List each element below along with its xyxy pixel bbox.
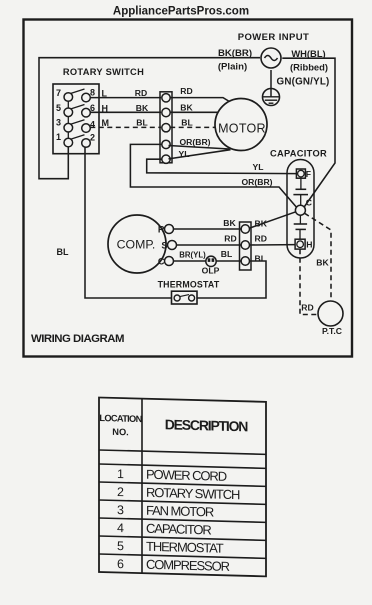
row 3 number [117, 503, 124, 517]
label CAPACITOR [270, 149, 327, 159]
wire GN plug to ground [270, 70, 272, 97]
rotary switch pin 8 [82, 93, 91, 102]
svg-text:(Ribbed): (Ribbed) [290, 62, 328, 73]
TB2 terminal BL [241, 257, 249, 265]
svg-text:5: 5 [56, 103, 61, 113]
label WH(BL) [291, 48, 325, 59]
thermostat TH1 [172, 291, 198, 304]
label POWER INPUT [238, 32, 309, 43]
pin number 6 [90, 103, 95, 113]
svg-text:6: 6 [117, 557, 124, 571]
svg-text:WIRING DIAGRAM: WIRING DIAGRAM [31, 333, 124, 345]
wire RD TB2 to capacitor H [250, 244, 295, 246]
svg-text:OR(BR): OR(BR) [179, 137, 210, 147]
table header bottom line [99, 450, 266, 454]
TB2 terminal RD [241, 241, 249, 249]
switch blade row 3 [71, 120, 85, 125]
wire RD switch L to strip [90, 97, 161, 99]
label OR(BR) (motor side) [179, 137, 210, 147]
label BK (motor side) [180, 103, 193, 113]
svg-text:BL: BL [255, 254, 266, 264]
svg-text:BK: BK [180, 103, 193, 113]
label BK (comp side) [223, 218, 236, 228]
row 1 POWER CORD [146, 467, 227, 484]
label ROTARY SWITCH [63, 67, 144, 77]
wire BR(YL) comp C to OLP [174, 260, 207, 262]
table row lines [99, 464, 266, 558]
svg-text:C: C [306, 198, 312, 208]
wire RD comp S to TB2 [177, 244, 242, 246]
svg-text:AppliancePartsPros.com: AppliancePartsPros.com [113, 6, 249, 18]
rotary switch pin 5 [64, 108, 73, 117]
switch blade row 1 [71, 89, 85, 94]
label BL (motor side) [181, 117, 192, 127]
label RD (PTC side) [301, 303, 313, 313]
svg-text:THERMOSTAT: THERMOSTAT [146, 539, 224, 556]
svg-text:BL: BL [181, 117, 192, 127]
fan motor M1 [215, 99, 267, 151]
compressor M2 [108, 215, 166, 273]
wire BL strip to motor (dashed) [170, 126, 215, 128]
pin number 5 [56, 103, 61, 113]
label OLP [202, 266, 220, 276]
label YL (motor side) [179, 149, 190, 159]
svg-text:R: R [158, 225, 165, 235]
svg-text:CAPACITOR: CAPACITOR [270, 149, 327, 159]
capacitor terminal C [295, 205, 305, 215]
TB1 terminal YL [162, 155, 170, 163]
label BR(YL) [179, 251, 206, 260]
rotary switch pin 7 [64, 93, 73, 102]
wire OR(BR) strip to motor [169, 146, 230, 150]
pin number 1 [56, 132, 61, 142]
wire BK(BR) plug to rotary switch pin1 [39, 58, 260, 179]
rotary switch pin 3 [64, 123, 73, 132]
label YL (capacitor side) [253, 162, 264, 172]
row 5 number [117, 539, 124, 553]
svg-text:1: 1 [56, 132, 61, 142]
svg-text:3: 3 [56, 118, 61, 128]
label (Ribbed) [290, 62, 328, 73]
svg-text:2: 2 [117, 485, 124, 499]
svg-text:WH(BL): WH(BL) [291, 48, 325, 59]
label RD (TB2 right) [255, 234, 267, 244]
svg-text:S: S [161, 241, 167, 251]
terminal strip TB1 body [160, 92, 172, 163]
svg-text:M: M [102, 118, 110, 128]
svg-text:RD: RD [180, 86, 192, 96]
capacitor plates C-H [294, 215, 307, 239]
OLP overload protector [206, 256, 216, 266]
svg-text:GN(GN/YL): GN(GN/YL) [277, 77, 330, 88]
label BL (OLP side) [221, 249, 232, 259]
svg-text:YL: YL [253, 162, 264, 172]
svg-text:RD: RD [301, 303, 313, 313]
header DESCRIPTION [165, 416, 249, 434]
pin number 2 [90, 133, 95, 143]
watermark AppliancePartsPros.com [113, 6, 249, 18]
wire BL rotary pin2 to thermostat [85, 147, 172, 298]
svg-text:BL: BL [221, 249, 232, 259]
wire YL loop strip to capacitor F [147, 159, 297, 173]
svg-text:RD: RD [135, 88, 147, 98]
label BK(BR) [218, 48, 252, 59]
label P.T.C [322, 326, 342, 336]
row 2 number [117, 485, 124, 499]
label S [161, 241, 167, 251]
switch blade row 4 [71, 135, 85, 140]
label BL (TB2 right) [255, 254, 266, 264]
pin number 4 [90, 120, 95, 130]
svg-text:BL: BL [136, 117, 147, 127]
svg-text:OR(BR): OR(BR) [241, 177, 272, 187]
label BL (left side) [57, 247, 69, 257]
row 1 number [117, 467, 124, 481]
wire BK switch H to strip [90, 111, 161, 113]
label THERMOSTAT [158, 279, 220, 289]
row 3 FAN MOTOR [146, 503, 214, 520]
label BK (switch side) [136, 103, 149, 113]
label GN(GN/YL) [277, 77, 330, 88]
row 6 number [117, 557, 124, 571]
label BK (TB2 right) [255, 219, 268, 229]
ground symbol [262, 89, 280, 106]
svg-text:4: 4 [117, 521, 124, 535]
label OR(BR) (capacitor side) [241, 177, 272, 187]
label F [306, 169, 311, 179]
row 6 COMPRESSOR [146, 557, 230, 574]
svg-text:C: C [158, 257, 165, 267]
TB1 terminal OR(BR) [162, 140, 170, 148]
svg-text:7: 7 [56, 88, 61, 98]
svg-text:NO.: NO. [112, 427, 129, 437]
label RD (motor side) [180, 86, 192, 96]
svg-text:1: 1 [117, 467, 124, 481]
label M [102, 118, 110, 128]
table column divider [141, 399, 143, 573]
label C [306, 198, 312, 208]
pin number 8 [90, 88, 95, 98]
wire BL switch M to strip (dashed) [90, 126, 161, 128]
label R [158, 225, 165, 235]
svg-text:BK: BK [316, 258, 329, 268]
svg-text:OLP: OLP [202, 266, 220, 276]
svg-text:BR(YL): BR(YL) [179, 251, 206, 260]
svg-text:RD: RD [224, 234, 236, 244]
svg-text:3: 3 [117, 503, 124, 517]
svg-text:COMP.: COMP. [117, 238, 156, 252]
TB2 terminal BK [241, 225, 249, 233]
svg-text:CAPACITOR: CAPACITOR [146, 521, 211, 538]
rotary switch pin 2 [82, 139, 91, 148]
table outer border [99, 398, 266, 577]
pin number 7 [56, 88, 61, 98]
comp terminal strip TB2 body [240, 222, 252, 270]
svg-text:POWER INPUT: POWER INPUT [238, 32, 309, 43]
diagram frame [24, 20, 353, 357]
svg-text:DESCRIPTION: DESCRIPTION [165, 416, 249, 434]
header LOCATION NO. [99, 413, 142, 438]
svg-text:BK: BK [223, 218, 236, 228]
svg-text:FAN MOTOR: FAN MOTOR [146, 503, 214, 520]
parts table [99, 398, 266, 577]
capacitor terminal F [296, 169, 305, 178]
label (Plain) [218, 62, 247, 73]
wire BK dashed capacitor C to PTC [305, 213, 331, 301]
label H [102, 104, 109, 114]
TB1 terminal BK [162, 108, 170, 116]
left pin chain wires [67, 101, 69, 138]
rotary switch pin 6 [82, 108, 91, 117]
PTC thermistor [318, 301, 343, 326]
comp terminal S [168, 241, 177, 250]
svg-text:F: F [306, 169, 311, 179]
label C (comp) [158, 257, 165, 267]
svg-text:ROTARY SWITCH: ROTARY SWITCH [63, 67, 144, 77]
capacitor plates F-C [293, 178, 308, 205]
rotary switch pin 1 [64, 138, 73, 147]
comp terminal R [165, 225, 174, 234]
wire BK comp R to TB2 [174, 228, 242, 230]
label BK (PTC side) [316, 258, 329, 268]
svg-text:BK: BK [136, 103, 149, 113]
row 5 THERMOSTAT [146, 539, 224, 556]
label RD (comp side) [224, 234, 236, 244]
rotary switch pin 4 [82, 124, 91, 133]
pin number 3 [56, 118, 61, 128]
svg-text:BK(BR): BK(BR) [218, 48, 252, 59]
capacitor C1 body [287, 160, 314, 259]
wire YL strip to motor [169, 150, 231, 159]
switch blade row 2 [71, 105, 85, 110]
TB1 terminal BL [162, 124, 170, 132]
label BL (switch side) [136, 117, 147, 127]
wire WH(BL) plug to capacitor C [282, 58, 335, 207]
label RD (switch side) [135, 88, 147, 98]
svg-text:COMPRESSOR: COMPRESSOR [146, 557, 230, 574]
svg-text:ROTARY SWITCH: ROTARY SWITCH [146, 485, 240, 502]
row 4 CAPACITOR [146, 521, 211, 538]
wire BL TB2 to thermostat [197, 261, 266, 298]
svg-text:THERMOSTAT: THERMOSTAT [158, 279, 220, 289]
svg-text:RD: RD [255, 234, 267, 244]
svg-text:2: 2 [90, 133, 95, 143]
rotary switch S1 body [53, 84, 99, 154]
label H [306, 240, 312, 250]
wire BK TB2 to capacitor C [250, 212, 296, 228]
wire BL OLP to TB2 [216, 260, 241, 262]
svg-text:P.T.C: P.T.C [322, 326, 342, 336]
TB1 terminal RD [162, 94, 170, 102]
svg-text:8: 8 [90, 88, 95, 98]
svg-text:POWER CORD: POWER CORD [146, 467, 227, 484]
wire RD dashed capacitor H to PTC [300, 249, 318, 314]
row 4 number [117, 521, 124, 535]
row 2 ROTARY SWITCH [146, 485, 240, 502]
svg-text:BL: BL [57, 247, 69, 257]
svg-text:H: H [306, 240, 312, 250]
svg-text:YL: YL [179, 149, 190, 159]
wire OR(BR) loop strip to capacitor C [130, 144, 296, 207]
svg-text:5: 5 [117, 539, 124, 553]
label WIRING DIAGRAM [31, 333, 124, 345]
power plug P1 (AC source) [261, 48, 281, 68]
label L [102, 89, 108, 99]
wire BK strip to motor [170, 112, 228, 118]
comp terminal C [165, 257, 174, 266]
svg-text:(Plain): (Plain) [218, 62, 247, 73]
svg-text:MOTOR: MOTOR [218, 122, 266, 136]
wire RD strip to motor [170, 98, 237, 107]
svg-text:6: 6 [90, 103, 95, 113]
svg-text:LOCATION: LOCATION [99, 413, 142, 424]
capacitor terminal H [295, 239, 305, 249]
